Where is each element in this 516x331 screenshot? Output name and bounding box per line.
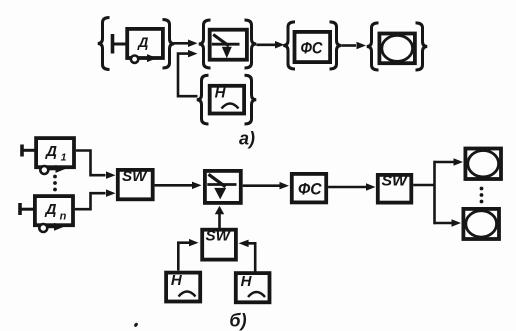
- wire D1 to SW1 (b): [76, 151, 106, 176]
- shaping filter box FS (b): [292, 174, 326, 203]
- brace { before detector block (a): [98, 18, 110, 70]
- wire FS to indicator (a): [342, 44, 357, 47]
- svg-text:Д: Д: [137, 34, 148, 50]
- indicator box (a): [379, 34, 415, 64]
- arrowhead feedback into switch (a): [188, 50, 198, 58]
- indicator screen circle (a): [382, 35, 413, 61]
- control arrow up into switch (b): [218, 213, 221, 229]
- switch lever diagonal (b): [209, 174, 226, 187]
- arrowhead into switch block (a): [188, 40, 198, 48]
- brace } after H block (a): [245, 75, 257, 124]
- switch contact line (a): [212, 43, 240, 46]
- detector box Dn (b): [35, 196, 73, 225]
- microphone input symbol of detector (a): [111, 34, 115, 54]
- bottom indicator box (b): [463, 209, 499, 239]
- svg-text:Н: Н: [241, 273, 253, 290]
- arrowhead H-right into SW3 (b): [239, 240, 249, 248]
- regulation circle of D (a): [131, 56, 138, 63]
- switch control arrow down (a): [222, 47, 232, 59]
- brace } after detector block (a): [163, 20, 175, 69]
- svg-text:Д: Д: [44, 143, 57, 160]
- wire SW2 output with branch (b): [413, 184, 434, 187]
- wire Dn to SW1 (b): [75, 193, 106, 209]
- regulation arrow of D1 (b): [47, 167, 57, 170]
- top indicator box (b): [465, 149, 501, 180]
- detector box D (a): [127, 29, 163, 58]
- wire D to switch (a): [174, 42, 189, 45]
- wire FS to SW2 (b): [328, 186, 366, 189]
- switch contact line (b): [207, 183, 236, 186]
- brace { before H block (a): [197, 75, 209, 124]
- microphone input of Dn (b): [18, 203, 22, 215]
- svg-text:ФС: ФС: [298, 179, 322, 198]
- dots between D1 and Dn (b): [53, 175, 57, 179]
- arrowhead D1 into SW1 (b): [106, 171, 116, 179]
- brace } after switch block (a): [245, 20, 257, 68]
- arrowhead H-left into SW3 (b): [189, 239, 199, 247]
- brace { before FS block (a): [283, 22, 295, 69]
- regulation arrow of Dn (b): [46, 225, 56, 228]
- regulation circle of D1 (b): [40, 166, 48, 174]
- wire H-left to SW3 (b): [178, 243, 189, 271]
- top indicator screen circle (b): [468, 151, 499, 177]
- wire switch to FS (a): [257, 43, 276, 46]
- input switch box SW1 (b): [118, 170, 153, 199]
- controlled switch box (a): [210, 30, 247, 60]
- pilot generator box H right (b): [236, 273, 270, 302]
- bottom indicator screen circle (b): [466, 211, 497, 237]
- wire switch to FS (b): [243, 184, 280, 187]
- sine arc in H (a): [222, 104, 239, 109]
- switch lever diagonal (a): [213, 35, 229, 47]
- svg-text:б): б): [229, 311, 246, 331]
- microphone input of D1 (b): [20, 145, 24, 157]
- svg-text:ФС: ФС: [301, 38, 324, 57]
- controlled switch box (b): [205, 171, 241, 203]
- pilot generator box H left (b): [166, 273, 200, 302]
- svg-text:Н: Н: [171, 272, 183, 289]
- pilot switch box SW3 (b): [202, 230, 236, 260]
- arrowhead into FS (b): [280, 182, 290, 190]
- brace } after FS block (a): [330, 22, 342, 69]
- arrowhead Dn into SW1 (b): [106, 189, 116, 197]
- detector box D1 (b): [36, 138, 74, 167]
- arrowhead into bottom indicator (b): [452, 219, 462, 227]
- sine arc in H right (b): [248, 292, 265, 297]
- output switch box SW2 (b): [378, 175, 412, 203]
- svg-text:Н: Н: [215, 85, 227, 102]
- svg-text:1: 1: [61, 152, 67, 164]
- switch control arrow down (b): [214, 188, 226, 200]
- svg-text:n: n: [60, 211, 67, 223]
- arrowhead SW1 into switch (b): [192, 182, 202, 190]
- arrowhead into indicator (a): [357, 42, 367, 49]
- svg-text:Д: Д: [44, 201, 57, 218]
- svg-text:SW: SW: [206, 228, 232, 245]
- sine arc in H left (b): [179, 292, 196, 297]
- svg-text:SW: SW: [122, 168, 148, 185]
- wire branch to bottom indicator (b): [434, 222, 452, 225]
- pilot generator box H (a): [210, 86, 244, 114]
- stray ink speck: [133, 322, 138, 327]
- wire H-right to SW3 (b): [248, 243, 256, 271]
- brace { before indicator block (a): [367, 23, 379, 70]
- feedback wire from H to switch (a): [178, 54, 198, 97]
- arrowhead into FS block (a): [275, 41, 285, 49]
- arrowhead into top indicator (b): [454, 158, 464, 166]
- regulation circle of Dn (b): [39, 224, 47, 232]
- svg-text:SW: SW: [382, 173, 409, 190]
- wire SW1 to switch (b): [155, 184, 192, 187]
- svg-text:а): а): [239, 129, 255, 149]
- wire branch to top indicator (b): [434, 161, 454, 164]
- regulation arrow of D (a): [139, 57, 149, 60]
- shaping filter box FS (a): [295, 32, 331, 62]
- brace } after indicator block (a): [416, 23, 428, 70]
- dots between indicators (b): [480, 187, 484, 191]
- arrowhead FS into SW2 (b): [366, 183, 376, 191]
- brace { before switch block (a): [199, 20, 211, 68]
